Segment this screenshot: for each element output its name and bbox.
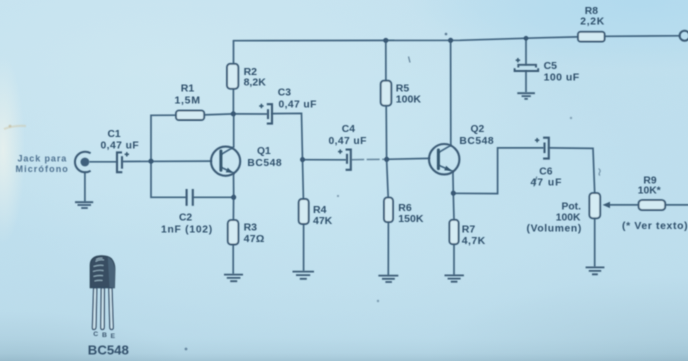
svg-text:Q2: Q2 (471, 124, 485, 135)
svg-text:0,47 uF: 0,47 uF (279, 99, 317, 110)
svg-text:BC548: BC548 (88, 343, 129, 358)
svg-text:C2: C2 (179, 213, 192, 224)
svg-text:8,2K: 8,2K (244, 76, 267, 88)
svg-text:(* Ver texto): (* Ver texto) (622, 221, 688, 232)
svg-text:C4: C4 (342, 124, 355, 135)
svg-text:C1: C1 (108, 129, 121, 140)
svg-text:10K*: 10K* (638, 186, 661, 197)
svg-text:47K: 47K (313, 215, 333, 227)
svg-text:B: B (102, 332, 107, 339)
svg-text:1nF (102): 1nF (102) (161, 224, 213, 235)
svg-text:Micrófono: Micrófono (16, 164, 69, 174)
svg-text:0,47 uF: 0,47 uF (329, 136, 367, 147)
svg-text:E: E (111, 333, 116, 340)
svg-text:C3: C3 (278, 88, 291, 99)
svg-text:Pot.: Pot. (562, 201, 582, 212)
svg-text:2,2K: 2,2K (580, 16, 605, 27)
svg-text:R1: R1 (181, 83, 195, 95)
svg-text:Jack para: Jack para (18, 153, 68, 163)
svg-text:100K: 100K (556, 212, 581, 223)
svg-text:C: C (93, 331, 98, 338)
svg-text:100 uF: 100 uF (544, 72, 580, 84)
svg-text:BC548: BC548 (459, 136, 494, 147)
svg-text:0,47 uF: 0,47 uF (101, 140, 140, 151)
svg-text:R3: R3 (244, 222, 258, 234)
svg-text:C6: C6 (539, 166, 552, 177)
svg-text:C5: C5 (544, 60, 558, 72)
svg-text:(Volumen): (Volumen) (527, 223, 582, 234)
svg-text:BC548: BC548 (247, 158, 282, 169)
svg-text:Q1: Q1 (257, 146, 271, 157)
svg-text:R7: R7 (462, 223, 476, 235)
svg-text:100K: 100K (396, 93, 422, 105)
svg-text:150K: 150K (398, 213, 424, 225)
svg-text:1,5M: 1,5M (175, 95, 201, 107)
svg-text:47Ω: 47Ω (244, 233, 265, 245)
svg-text:4,7K: 4,7K (462, 235, 486, 247)
